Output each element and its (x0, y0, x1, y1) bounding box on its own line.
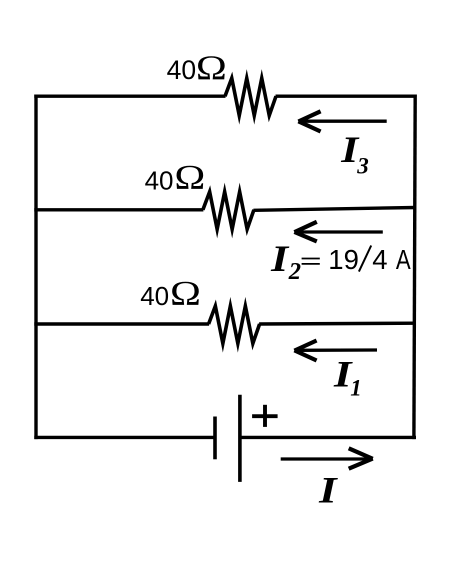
wire: top branch left segment (34, 94, 225, 97)
svg-text:3: 3 (356, 154, 369, 179)
battery negative plate (short) (213, 417, 217, 460)
wire: third branch left segment (34, 322, 209, 325)
svg-text:Ω: Ω (170, 275, 201, 313)
wire: bottom left segment (34, 436, 213, 439)
wire: left vertical (34, 95, 37, 440)
svg-text:1: 1 (350, 376, 362, 401)
svg-text:I: I (270, 239, 290, 280)
resistor R (middle, 40 ohm) zigzag (203, 192, 254, 229)
svg-text:40: 40 (145, 165, 174, 195)
svg-text:40: 40 (167, 55, 196, 85)
svg-text:Ω: Ω (174, 159, 205, 197)
wire: middle branch left segment (34, 208, 203, 211)
resistor R (third, 40 ohm) zigzag (209, 306, 260, 344)
svg-text:Ω: Ω (196, 49, 227, 87)
battery positive plate (long) (238, 395, 242, 482)
svg-text:2: 2 (288, 258, 301, 285)
wire: right vertical (414, 95, 415, 440)
wire: bottom right segment (241, 436, 416, 439)
current arrow I1 (pointing left) (296, 348, 377, 352)
current arrow I (pointing right) (281, 457, 371, 460)
current arrow I3 (pointing left) (301, 120, 387, 123)
resistor R (top, 40 ohm) zigzag (225, 78, 276, 115)
plus sign (252, 414, 278, 418)
svg-text:4: 4 (372, 244, 387, 275)
equals sign (302, 258, 320, 260)
svg-text:19: 19 (328, 244, 359, 275)
current arrow I2 (pointing left) (296, 230, 383, 233)
wire: middle branch right segment (slightly sloped) (253, 208, 416, 211)
wire: top branch right segment (276, 94, 417, 97)
svg-text:I: I (318, 471, 339, 512)
svg-text:40: 40 (140, 281, 169, 311)
wire: third branch right segment (259, 322, 416, 326)
svg-text:A: A (396, 244, 411, 275)
